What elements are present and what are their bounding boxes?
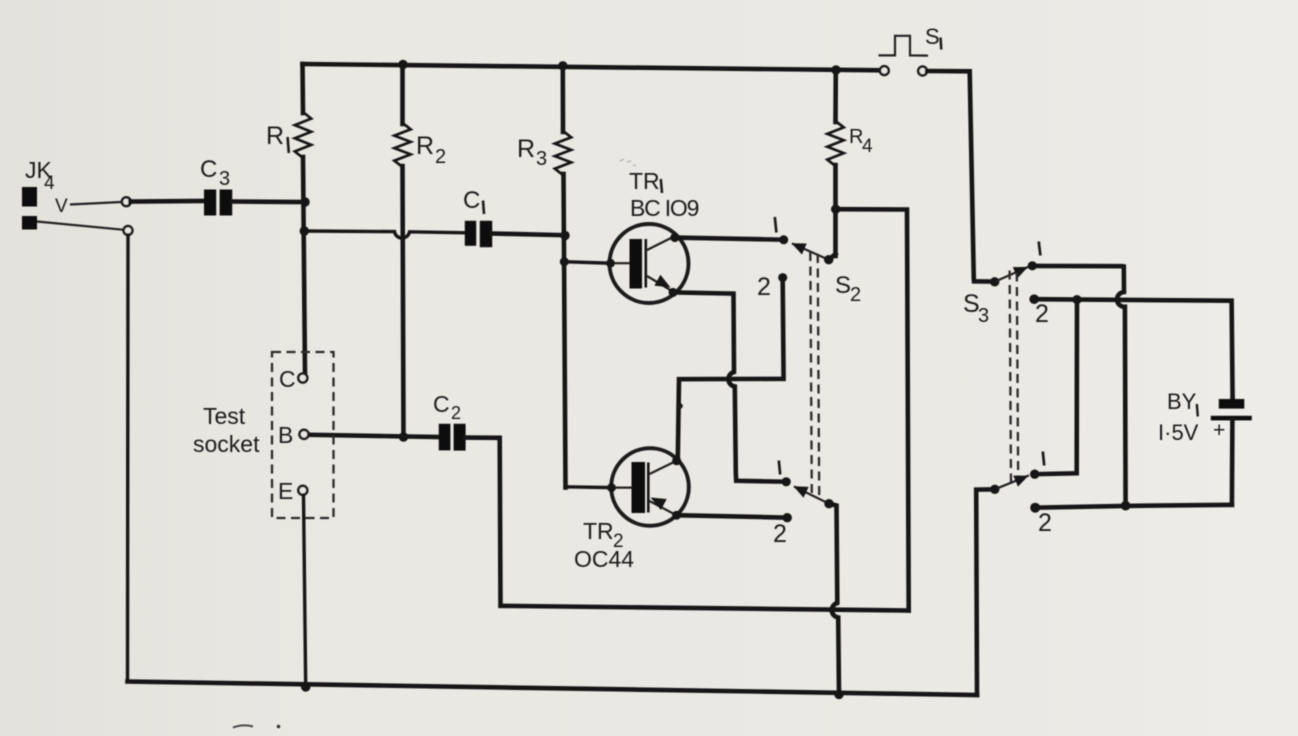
transistor TR1 BC109 xyxy=(606,224,688,303)
label R2 xyxy=(416,132,446,168)
junction E wire / bottom rail xyxy=(301,682,311,692)
battery BY1 xyxy=(1211,399,1252,505)
node R3 top xyxy=(558,61,567,70)
wire C1 to R3 node xyxy=(492,234,565,236)
S3 upper contact 2 xyxy=(1029,294,1039,304)
wire S2 lower pole down to bottom rail (hop over C2 run) xyxy=(829,504,839,695)
svg-text:C: C xyxy=(463,187,480,214)
wire lower terminal down to bottom rail xyxy=(126,235,130,682)
socket pin E xyxy=(278,478,307,504)
label C3 xyxy=(200,156,230,190)
resistor R4 xyxy=(827,70,843,260)
svg-text:2: 2 xyxy=(757,273,771,301)
wire R3 line down to TR2 base xyxy=(566,485,612,489)
wire jack tip to terminal xyxy=(70,202,122,205)
wire TR2 emitter to S2 lower contact 2 xyxy=(677,515,787,517)
wire S3 lower 2 to battery bottom xyxy=(1035,505,1232,508)
S2 gang link dashed xyxy=(810,252,819,495)
terminal circle upper xyxy=(122,197,131,206)
svg-text:B: B xyxy=(278,422,293,448)
S3 upper pole xyxy=(990,277,999,286)
svg-text:R: R xyxy=(266,122,284,150)
label Test socket xyxy=(193,403,260,457)
S2 upper contact 1 xyxy=(779,235,788,244)
svg-text:Test: Test xyxy=(203,403,246,429)
svg-text:BY: BY xyxy=(1167,389,1197,414)
wire R4 bottom to right riser xyxy=(836,209,909,610)
svg-text:+: + xyxy=(1213,419,1225,442)
label C2 xyxy=(433,391,461,423)
svg-text:E: E xyxy=(278,478,293,504)
wire C2 to riser via lower run xyxy=(466,438,909,611)
svg-text:3: 3 xyxy=(536,148,547,170)
S2 upper pole xyxy=(824,255,833,264)
wire node to C1 with hop over R2 xyxy=(304,231,465,238)
wire jack sleeve to terminal xyxy=(37,222,124,230)
junction x-link / battery bottom run xyxy=(1121,501,1131,511)
svg-text:I·5V: I·5V xyxy=(1158,420,1199,445)
S3 lower pole xyxy=(990,485,999,494)
svg-text:2: 2 xyxy=(1035,300,1049,328)
faint smudge near TR1 label xyxy=(620,159,636,166)
svg-text:2: 2 xyxy=(773,520,787,548)
svg-text:S: S xyxy=(925,24,940,49)
svg-text:4: 4 xyxy=(862,136,873,157)
svg-text:2: 2 xyxy=(1038,509,1052,537)
switch S3 upper arm xyxy=(995,267,1029,282)
wire S1 to S3 upper pole xyxy=(927,71,994,282)
svg-text:C: C xyxy=(433,391,450,417)
svg-text:3: 3 xyxy=(219,168,230,190)
svg-text:S: S xyxy=(835,272,851,299)
wire C3 to node xyxy=(232,199,305,204)
label 1 (S2 lower) xyxy=(779,461,780,475)
node junction R1/C1 feed xyxy=(300,226,309,235)
svg-text:C: C xyxy=(279,366,296,392)
svg-text:C: C xyxy=(200,156,217,183)
socket pin C xyxy=(279,366,307,392)
wire socket E to bottom rail xyxy=(304,495,306,687)
label R1 xyxy=(266,122,289,153)
resistor R1 xyxy=(295,64,311,374)
resistor R2 xyxy=(394,64,410,437)
wire S3 upper 1 right and down (hop over 2-wire) xyxy=(1037,266,1126,506)
wire S2 upper contact 2 down and across to TR2 collector xyxy=(678,281,784,458)
svg-text:2: 2 xyxy=(451,403,461,423)
node TR1 base / R3 line xyxy=(560,257,569,266)
switch S1 push button xyxy=(879,36,929,56)
label TR1 xyxy=(629,168,662,194)
ink blob on wire (scan artifact) xyxy=(677,403,683,409)
transistor TR2 OC44 xyxy=(607,448,689,526)
svg-text:2: 2 xyxy=(850,284,861,306)
svg-text:TR: TR xyxy=(583,518,614,544)
test socket dashed outline xyxy=(272,352,334,518)
S3 lower contact 1 xyxy=(1030,470,1039,479)
label S3 xyxy=(963,290,989,327)
wire riser to S3 lower contact 1 xyxy=(1035,300,1077,475)
wire test socket B to R2 node and C2 xyxy=(309,435,439,437)
wire TR1 emitter to S2 lower contact 1 (hop over x-link) xyxy=(673,292,786,481)
switch S2 upper arm xyxy=(792,243,829,259)
svg-text:3: 3 xyxy=(978,305,989,327)
node C1/R3 xyxy=(560,231,569,240)
node junction C3/R1 xyxy=(300,197,309,206)
label 1 (S2 upper) xyxy=(775,217,777,233)
S3 lower contact 2 xyxy=(1030,503,1040,513)
wire bottom rail xyxy=(128,682,978,696)
svg-text:BC IO9: BC IO9 xyxy=(630,195,699,221)
stray mark bottom left xyxy=(233,725,253,727)
capacitor C1 xyxy=(465,221,492,247)
label BY1 xyxy=(1167,389,1198,417)
node R4 top xyxy=(831,65,840,74)
node R2 bottom / base wire xyxy=(399,432,408,441)
label C1 xyxy=(463,187,484,214)
capacitor C3 xyxy=(204,190,232,216)
S3 gang link dashed xyxy=(1010,271,1019,485)
S2 lower contact 2 xyxy=(783,513,792,522)
label 1 (S3 lower) xyxy=(1043,452,1044,466)
jack JK4 plug contacts xyxy=(22,187,37,230)
S2 lower contact 1 xyxy=(782,477,791,486)
capacitor C2 xyxy=(439,424,466,451)
S1 contact circles xyxy=(880,66,889,75)
svg-text:2: 2 xyxy=(435,146,446,168)
svg-text:OC44: OC44 xyxy=(574,546,634,572)
wire top supply rail xyxy=(303,64,880,70)
label S2 xyxy=(835,272,861,306)
S2 upper contact 2 xyxy=(778,273,787,282)
node R2 top xyxy=(398,60,407,69)
S3 upper contact 1 xyxy=(1028,261,1037,270)
svg-text:4: 4 xyxy=(44,173,55,194)
svg-text:V: V xyxy=(55,196,68,217)
junction S2 pole line / bottom rail xyxy=(834,690,844,700)
resistor R3 xyxy=(555,65,571,488)
wire terminal to C3 xyxy=(131,199,205,204)
wire TR1 collector to S2 upper contact 1 xyxy=(675,238,784,240)
switch S2 lower arm xyxy=(794,486,830,503)
label TR2 xyxy=(583,518,624,552)
svg-text:TR: TR xyxy=(629,168,660,194)
svg-text:R: R xyxy=(416,132,434,160)
switch S3 lower arm xyxy=(995,475,1029,489)
label R3 xyxy=(517,135,547,170)
socket pin B xyxy=(278,422,309,448)
node R4 bottom xyxy=(831,205,840,214)
label R4 xyxy=(849,126,873,157)
S2 lower pole xyxy=(824,499,833,508)
terminal circle lower xyxy=(124,226,133,235)
svg-text:socket: socket xyxy=(193,431,260,457)
svg-text:R: R xyxy=(517,135,535,163)
junction 1077 riser xyxy=(1072,295,1081,304)
label 1 (S3 upper) xyxy=(1039,242,1041,256)
label S1 xyxy=(925,24,941,50)
wire S3 upper 2 to battery top xyxy=(1034,299,1232,399)
wire base lead TR1 xyxy=(564,262,610,264)
wire bottom rail corner up to S3 lower pole xyxy=(976,489,995,695)
label JK4 xyxy=(25,157,55,194)
